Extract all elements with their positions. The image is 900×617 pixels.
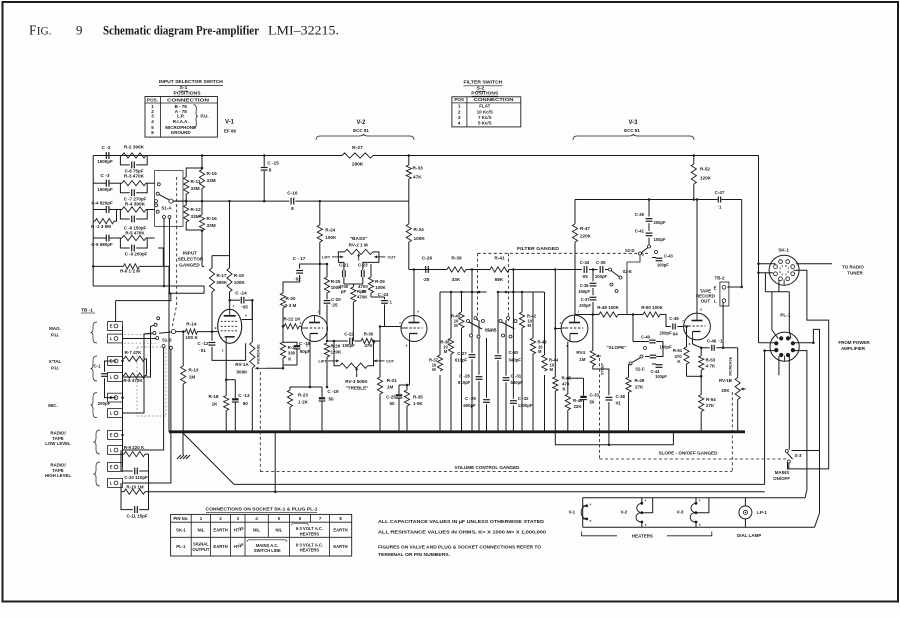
- wire MAG L to S1-B: [123, 338, 156, 340]
- resistor R-29 100K: [370, 264, 372, 277]
- resistor R-23 1.2K: [289, 387, 291, 390]
- brace V-3: [573, 134, 694, 140]
- svg-text:POSITIONS: POSITIONS: [174, 91, 202, 97]
- svg-text:5: 5: [699, 523, 701, 527]
- svg-text:V-2: V-2: [621, 509, 628, 514]
- svg-text:HEATERS: HEATERS: [632, 533, 653, 538]
- wire bank col C: [461, 292, 463, 312]
- svg-text:100pF: 100pF: [657, 262, 669, 267]
- svg-text:R-31: R-31: [387, 378, 397, 383]
- svg-text:C -31: C -31: [511, 373, 522, 378]
- svg-text:910pF: 910pF: [458, 380, 471, 385]
- svg-text:68K: 68K: [495, 277, 504, 282]
- capacitor C-10 110pF: [121, 454, 133, 471]
- wire earth hook: [116, 293, 205, 300]
- valve V-2a (ECC81 half): [302, 316, 328, 342]
- wire RT LOW L to S1-B: [123, 349, 164, 450]
- node R-15 top: [201, 154, 204, 157]
- svg-text:2: 2: [458, 109, 461, 114]
- svg-text:9: 9: [215, 326, 217, 330]
- svg-text:INCREASE: INCREASE: [257, 344, 261, 364]
- svg-text:CUT: CUT: [388, 255, 397, 259]
- wire X'TAL L to S1-B: [123, 325, 155, 377]
- capacitor C-16: [290, 198, 292, 205]
- heater V-2: [636, 503, 642, 522]
- svg-text:FROM POWER: FROM POWER: [838, 340, 870, 345]
- capacitor C-44 100pF: [652, 363, 656, 365]
- svg-text:200pF: 200pF: [98, 401, 111, 406]
- resistor R-21 330K: [282, 326, 284, 342]
- svg-text:8: 8: [406, 344, 408, 348]
- svg-text:C -28: C -28: [459, 373, 470, 378]
- wire bank col K: [532, 292, 534, 338]
- node rail2 C-15: [263, 200, 266, 203]
- node bank col 498: [497, 291, 500, 294]
- svg-text:470K: 470K: [357, 294, 368, 299]
- wire right drop from HT rail: [758, 156, 760, 343]
- capacitor C-9 200pF (loop): [120, 238, 129, 248]
- svg-text:OUT: OUT: [701, 298, 711, 303]
- svg-text:2: 2: [300, 321, 302, 325]
- svg-text:ALL RESISTANCE VALUES IN: ALL RESISTANCE VALUES IN OHMS, K= X 1000…: [378, 530, 546, 535]
- svg-text:FIGURES ON VALVE AND PLUG & SO: FIGURES ON VALVE AND PLUG & SOCKET CONNE…: [378, 545, 541, 550]
- capacitor C-36 150pF: [592, 272, 594, 281]
- svg-text:RV-1A: RV-1A: [235, 362, 249, 367]
- svg-text:8: 8: [269, 168, 272, 173]
- svg-text:C-27: C-27: [457, 351, 467, 356]
- wire PL1 left pins: [765, 350, 776, 352]
- svg-text:R-54: R-54: [706, 397, 716, 402]
- wire slope input drop: [554, 270, 556, 378]
- svg-text:EARTH: EARTH: [213, 544, 227, 549]
- svg-text:RV-1B: RV-1B: [719, 378, 733, 383]
- switch S2-C: [640, 355, 643, 358]
- svg-text:1M: 1M: [189, 375, 196, 380]
- capacitor C-26: [425, 266, 427, 273]
- svg-text:R-52: R-52: [700, 167, 710, 172]
- capacitor C-24 .1: [371, 296, 385, 298]
- gang line: volume control (dashed): [260, 471, 732, 473]
- node bank col 461.5: [460, 291, 463, 294]
- capacitor C-12 .01: [211, 332, 213, 341]
- svg-text:OUTPUT: OUTPUT: [192, 547, 210, 552]
- svg-text:P.U.: P.U.: [51, 366, 59, 371]
- wire heater rail left: [582, 498, 584, 528]
- svg-text:50: 50: [590, 399, 595, 404]
- wire V-3a cathode: [567, 342, 569, 379]
- svg-text:100pF: 100pF: [654, 237, 666, 242]
- capacitor C-42 150pF: [656, 342, 663, 357]
- wire filter bank top bar left: [440, 291, 487, 293]
- svg-text:1M: 1M: [579, 357, 585, 362]
- svg-text:C -24: C -24: [378, 292, 389, 297]
- svg-text:E: E: [110, 433, 113, 438]
- svg-text:R-46: R-46: [573, 398, 583, 403]
- svg-text:P.U.: P.U.: [51, 333, 59, 338]
- wire PL1 right pin D: [794, 351, 807, 490]
- wire bus drop x275: [274, 432, 276, 492]
- wire TB-2 L drop: [722, 302, 724, 348]
- svg-text:R-15: R-15: [207, 171, 218, 176]
- svg-text:NIL: NIL: [197, 528, 204, 533]
- svg-text:200pF: 200pF: [579, 303, 591, 308]
- svg-text:TERMINAL OR PIN NUMBERS.: TERMINAL OR PIN NUMBERS.: [378, 552, 450, 557]
- switch S2-A: [467, 320, 470, 323]
- svg-text:33K: 33K: [452, 277, 461, 282]
- svg-text:C-20: C-20: [331, 297, 341, 302]
- svg-text:C -32: C -32: [518, 396, 529, 401]
- resistor R-35 1.5K: [406, 385, 408, 390]
- wire V-2b plate lead: [413, 270, 415, 316]
- svg-text:M: M: [550, 367, 554, 372]
- svg-text:R-41: R-41: [494, 256, 505, 261]
- svg-text:R-19: R-19: [234, 273, 244, 278]
- svg-text:1·5K: 1·5K: [413, 401, 423, 406]
- node row5 left: [92, 265, 95, 268]
- svg-text:33M: 33M: [207, 178, 216, 183]
- svg-text:CUT: CUT: [386, 359, 395, 363]
- capacitor C-1 200pF: [105, 361, 117, 372]
- wire bank col I + C-32: [512, 292, 514, 399]
- wire slope cluster: [557, 269, 582, 271]
- wire S2-D chain bottom: [627, 255, 640, 274]
- svg-text:4: 4: [590, 502, 592, 506]
- wire filter bank feeds: [471, 270, 473, 293]
- wire HT rail: [93, 155, 342, 157]
- resistor R-53 4.7K: [700, 348, 702, 356]
- wire signal/earth long line: [149, 491, 765, 493]
- svg-text:R-53: R-53: [706, 357, 716, 362]
- valve V-3b (ECC81 half): [684, 313, 711, 340]
- svg-text:L: L: [110, 375, 113, 380]
- capacitor C-34 .05: [583, 266, 585, 273]
- node bank col 506: [505, 291, 508, 294]
- shield (dashed) MAG lead: [124, 334, 158, 336]
- svg-text:·05: ·05: [581, 274, 588, 279]
- svg-text:R-6 1·2 M: R-6 1·2 M: [120, 268, 140, 273]
- svg-text:"SLOPE": "SLOPE": [607, 345, 627, 350]
- gang line: volume RV-1A (dashed): [259, 372, 261, 472]
- svg-text:PIN No.: PIN No.: [173, 516, 188, 521]
- svg-text:PL-1: PL-1: [176, 544, 186, 549]
- svg-text:M: M: [528, 323, 532, 328]
- wire bank col H + C-31: [505, 320, 507, 376]
- svg-text:1·2K: 1·2K: [298, 399, 309, 404]
- gang line: volume RV-1B (dashed): [731, 392, 733, 472]
- wire R12 bottom link: [186, 226, 202, 230]
- svg-text:200pF: 200pF: [660, 330, 672, 335]
- capacitor C-2 1500pF: [105, 152, 107, 159]
- potentiometer RV-1A 500K: [251, 300, 253, 342]
- gang line: filter ganged (dashed): [478, 252, 649, 254]
- wire bank col L: [544, 292, 546, 355]
- svg-text:C-16: C-16: [287, 191, 298, 196]
- svg-text:C-38: C-38: [616, 394, 626, 399]
- svg-text:120K: 120K: [331, 349, 342, 354]
- heater V-1: [581, 506, 587, 519]
- svg-text:AMPLIFIER: AMPLIFIER: [841, 346, 866, 351]
- svg-text:R-48 100K: R-48 100K: [597, 305, 619, 310]
- capacitor C-25 50: [398, 385, 400, 394]
- svg-text:LIFT: LIFT: [322, 255, 331, 259]
- svg-text:9: 9: [76, 24, 82, 38]
- svg-text:·05: ·05: [241, 304, 248, 309]
- svg-text:C-41: C-41: [635, 228, 645, 233]
- capacitor C-13 50: [234, 380, 236, 398]
- svg-text:4: 4: [645, 499, 647, 503]
- svg-text:1: 1: [233, 304, 235, 308]
- wire row4: [93, 237, 106, 239]
- capacitor C-5 680pF: [105, 235, 107, 242]
- svg-text:6: 6: [417, 310, 419, 314]
- resistor R-24 100K: [319, 201, 321, 225]
- svg-text:R-26: R-26: [331, 343, 341, 348]
- svg-text:V-1: V-1: [568, 509, 575, 514]
- wire V-1 plate lead: [229, 300, 231, 309]
- svg-text:1500pF: 1500pF: [97, 159, 113, 164]
- svg-text:C-23: C-23: [358, 262, 368, 267]
- node C-15 top: [263, 154, 266, 157]
- svg-text:S1-B: S1-B: [162, 337, 172, 342]
- svg-text:R-49: R-49: [635, 378, 645, 383]
- svg-text:C-36: C-36: [580, 283, 590, 288]
- wire V-2b cathode: [409, 342, 411, 386]
- wire V-1 grid line: [174, 331, 186, 333]
- svg-text:INPUT: INPUT: [183, 250, 197, 255]
- svg-text:R-39: R-39: [451, 256, 462, 261]
- svg-text:50µF: 50µF: [300, 349, 311, 354]
- svg-text:SELECTOR: SELECTOR: [178, 256, 204, 261]
- svg-text:SWITCH LINE: SWITCH LINE: [254, 548, 281, 553]
- svg-text:R-4 390K: R-4 390K: [125, 201, 146, 206]
- wiper RV-1B: [741, 388, 746, 390]
- resistor R-47 220K: [572, 224, 577, 242]
- node bus ground tap: [181, 430, 184, 433]
- svg-text:EARTH: EARTH: [213, 528, 227, 533]
- svg-text:RV4: RV4: [576, 350, 585, 355]
- svg-text:E: E: [110, 324, 113, 329]
- svg-text:S1-A: S1-A: [161, 206, 172, 211]
- wire bank col E + C-28: [478, 320, 480, 375]
- resistor R-43 10M: [530, 338, 535, 354]
- wire ground stub: [182, 432, 184, 455]
- valve V-1 EF86: [218, 309, 242, 343]
- svg-text:100K: 100K: [375, 285, 386, 290]
- resistor R-49 27K: [629, 364, 631, 366]
- capacitor C-38 .01: [606, 396, 613, 398]
- svg-text:HEATERS: HEATERS: [300, 531, 320, 536]
- node filter left tap: [471, 268, 474, 271]
- wire filter bank top bar right: [498, 291, 545, 293]
- wire treble lift/cut: [328, 360, 339, 362]
- capacitor C-11 15pF: [121, 492, 133, 510]
- wire MIC L to S1-B: [123, 333, 154, 413]
- svg-text:X'TAL: X'TAL: [49, 359, 62, 364]
- wire bank col G + C-30: [497, 292, 499, 354]
- svg-text:C -2: C -2: [102, 145, 111, 150]
- svg-text:pF: pF: [341, 289, 347, 294]
- resistor R-45 470K: [553, 377, 558, 391]
- switch S2-B: [499, 320, 502, 323]
- potentiometer RV-3 500K treble: [340, 363, 368, 368]
- svg-text:E: E: [110, 465, 113, 470]
- svg-text:GANGED: GANGED: [179, 262, 200, 267]
- svg-text:R-51: R-51: [673, 348, 683, 353]
- ground bus: [169, 430, 745, 433]
- resistor R-27 180K: [342, 153, 373, 158]
- svg-text:L: L: [110, 448, 113, 453]
- resistor R-6 1.2M: [93, 265, 123, 267]
- svg-text:R.I.A.A.: R.I.A.A.: [173, 119, 189, 124]
- svg-text:E: E: [714, 285, 717, 290]
- capacitor C-4 820pF: [105, 206, 107, 213]
- wire R11 top link: [186, 168, 202, 171]
- resistor R-54 27K: [700, 376, 702, 394]
- resistor R-10 1M: [120, 483, 122, 492]
- node bank col 513.4: [512, 291, 515, 294]
- svg-text:600pF: 600pF: [463, 403, 476, 408]
- capacitor C-8 150pF (loop): [120, 210, 129, 220]
- wire R-9/R-10 link: [148, 454, 150, 492]
- wire divider column: [201, 156, 203, 170]
- svg-text:C-47: C-47: [715, 190, 725, 195]
- svg-text:·01: ·01: [199, 348, 206, 353]
- svg-text:EARTH: EARTH: [333, 528, 347, 533]
- gang line: slope (dashed): [599, 358, 601, 459]
- shield (dashed) box: [137, 347, 166, 416]
- svg-text:R-14: R-14: [186, 321, 197, 326]
- svg-text:HEATERS: HEATERS: [300, 548, 320, 553]
- svg-text:C - 17: C - 17: [293, 256, 306, 261]
- svg-text:340pF: 340pF: [509, 358, 522, 363]
- node bank col 479: [478, 291, 481, 294]
- resistor R-19 100K: [229, 256, 231, 268]
- wire input network bottom return: [92, 266, 94, 286]
- svg-text:3: 3: [306, 344, 308, 348]
- svg-text:NIL: NIL: [253, 528, 260, 533]
- svg-text:R-13: R-13: [189, 368, 199, 373]
- svg-text:5 Kc/S: 5 Kc/S: [478, 121, 492, 126]
- wire bank col A: [439, 292, 441, 355]
- wire bass lift/cut: [332, 256, 343, 258]
- svg-text:C-39: C-39: [635, 212, 645, 217]
- resistor R-31 1M: [379, 327, 381, 378]
- wire V-2a cathode: [309, 342, 311, 388]
- svg-text:·04: ·04: [671, 331, 678, 336]
- wire C-47 line: [694, 199, 718, 201]
- node bank col 522: [521, 291, 524, 294]
- wire V-3a grid: [555, 328, 561, 330]
- svg-text:180K: 180K: [352, 162, 364, 168]
- switch S2-D: [648, 245, 651, 248]
- svg-text:C -18: C -18: [299, 341, 311, 346]
- svg-text:100pF: 100pF: [342, 343, 355, 348]
- wire input network left rail: [92, 156, 94, 267]
- svg-text:2: 2: [560, 321, 562, 325]
- svg-text:220K: 220K: [580, 233, 592, 238]
- resistor R-18 1K: [225, 380, 227, 396]
- svg-text:R -1 3·9M: R -1 3·9M: [91, 224, 111, 229]
- resistor R-5 470K: [122, 235, 146, 240]
- wire row3: [93, 209, 106, 211]
- resistor R-8 470K: [123, 375, 125, 377]
- svg-text:C-43: C-43: [664, 253, 674, 258]
- wire V-1 screen lead: [242, 300, 253, 319]
- svg-text:·02: ·02: [294, 276, 301, 281]
- svg-text:C-26: C-26: [422, 256, 433, 261]
- svg-text:100pF: 100pF: [595, 274, 608, 279]
- capacitor C-43 100pF: [652, 257, 656, 259]
- svg-text:S2-D: S2-D: [625, 248, 634, 253]
- wire R11/R12 column: [185, 171, 187, 177]
- svg-text:C -15: C -15: [267, 161, 279, 166]
- resistor R-42 10M: [519, 312, 524, 328]
- resistor R-1 3.9M (branch): [93, 220, 95, 222]
- svg-text:7 Kc/S: 7 Kc/S: [478, 115, 492, 120]
- wire RV-4 bottom: [593, 366, 609, 396]
- svg-text:22K: 22K: [574, 404, 583, 409]
- wire HT line to V-3: [575, 199, 694, 201]
- svg-text:S2-C: S2-C: [635, 366, 644, 371]
- svg-text:C-11 15pF: C-11 15pF: [126, 514, 147, 519]
- resistor R-38 10M: [448, 338, 453, 354]
- wire filter feed line: [409, 269, 447, 271]
- svg-text:R-9 220 K: R-9 220 K: [124, 445, 145, 450]
- node rail2 R-11/R-12 tap: [185, 200, 188, 203]
- wire PL1 right pin C: [792, 329, 820, 450]
- svg-text:R-24: R-24: [325, 228, 335, 233]
- svg-text:33M: 33M: [191, 214, 200, 219]
- resistor R-37 10M: [437, 355, 442, 371]
- capacitor C-3 1500pF: [105, 180, 107, 187]
- svg-text:50: 50: [328, 396, 334, 401]
- svg-text:V-1: V-1: [225, 120, 235, 126]
- svg-text:610pF: 610pF: [455, 358, 468, 363]
- svg-text:L: L: [110, 336, 113, 341]
- resistor R-4 390K: [122, 207, 146, 212]
- resistor R-20 3.3M: [280, 293, 285, 308]
- resistor R-33 47K: [408, 156, 410, 166]
- resistor R-25 100K: [326, 264, 328, 277]
- wire SK1 right down: [788, 270, 829, 469]
- svg-text:INPUT SELECTOR SWITCH: INPUT SELECTOR SWITCH: [159, 79, 223, 85]
- svg-text:1M: 1M: [387, 384, 394, 389]
- capacitor C-17 .02: [300, 264, 320, 269]
- resistor R-40 10M: [459, 312, 464, 328]
- svg-text:100pF: 100pF: [655, 374, 667, 379]
- svg-text:·1: ·1: [718, 205, 722, 210]
- svg-text:6: 6: [700, 308, 702, 312]
- svg-text:5: 5: [590, 519, 592, 523]
- svg-text:TO RADIO: TO RADIO: [842, 265, 864, 270]
- svg-text:C -14: C -14: [235, 290, 247, 295]
- svg-text:·1: ·1: [388, 299, 392, 304]
- terminal block TB-1: [108, 322, 123, 331]
- wire anode coupling line: [575, 314, 599, 316]
- svg-text:VOLUME CONTROL GANGED: VOLUME CONTROL GANGED: [455, 465, 521, 470]
- svg-text:4·7K: 4·7K: [706, 363, 716, 368]
- svg-text:R-11: R-11: [191, 179, 201, 184]
- svg-text:C-33: C-33: [590, 392, 600, 397]
- svg-text:HIGH LEVEL: HIGH LEVEL: [45, 473, 72, 478]
- svg-text:EF 86: EF 86: [224, 129, 236, 134]
- svg-text:1K: 1K: [212, 402, 219, 407]
- switch S2-E: [609, 268, 612, 271]
- svg-text:SLOPE - ON/OFF GANGED: SLOPE - ON/OFF GANGED: [659, 450, 719, 455]
- svg-text:M: M: [454, 323, 458, 328]
- svg-text:LMI–32215.: LMI–32215.: [268, 24, 339, 38]
- resistor R-2 390K: [122, 153, 146, 158]
